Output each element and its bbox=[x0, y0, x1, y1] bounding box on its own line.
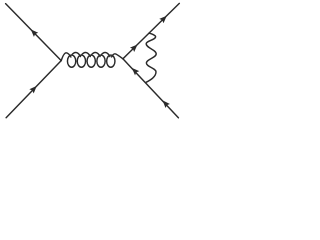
photon bbox=[146, 33, 156, 82]
arrow on upper-right outer segment bbox=[159, 16, 167, 23]
arrow on top-left line bbox=[31, 29, 38, 37]
fermion line bottom-right bbox=[123, 59, 178, 118]
arrow on lower-right outer segment bbox=[163, 100, 170, 108]
arrow on lower-right inner segment bbox=[132, 68, 139, 76]
fermion line top-left bbox=[6, 4, 62, 61]
gluon propagator bbox=[61, 53, 123, 68]
arrow on upper-right inner segment bbox=[130, 44, 138, 51]
fermion line bottom-left bbox=[6, 61, 61, 118]
arrow on bottom-left line bbox=[29, 86, 36, 94]
fermion line top-right bbox=[123, 3, 179, 58]
